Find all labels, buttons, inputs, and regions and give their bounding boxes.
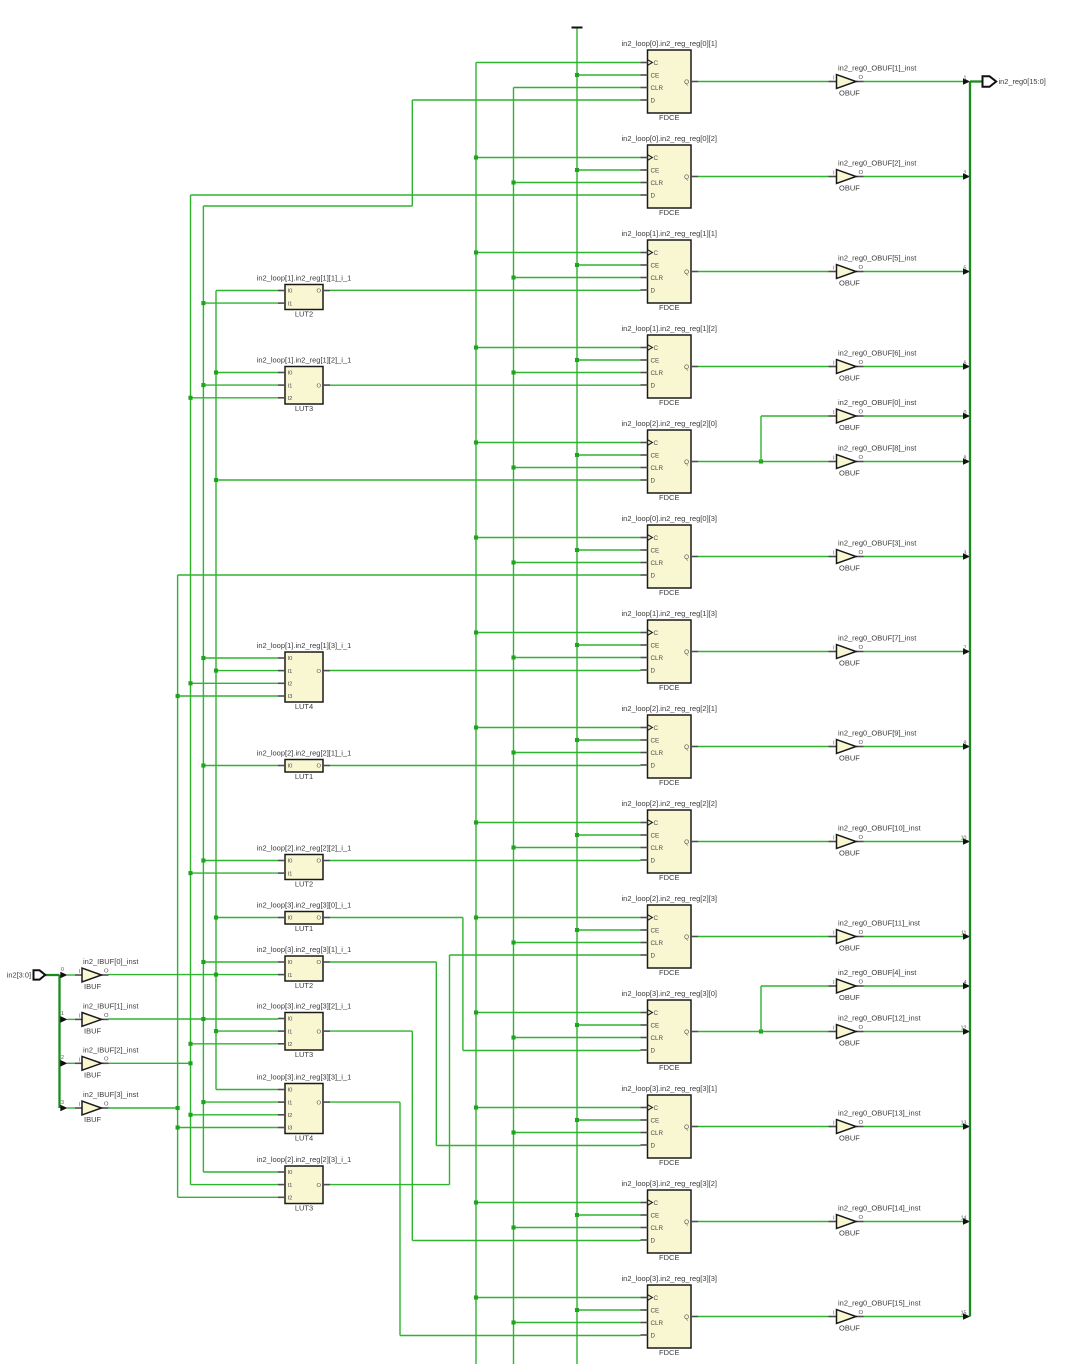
svg-text:D: D (651, 1332, 656, 1339)
svg-text:C: C (654, 630, 659, 637)
svg-text:FDCE: FDCE (659, 588, 679, 597)
wire bus tap to IBUF[1] input (67, 1018, 75, 1020)
wire LUT[3][1] O horizontal (330, 961, 436, 963)
svg-text:Q: Q (684, 1314, 689, 1321)
svg-text:D: D (651, 1142, 656, 1149)
junction in2_IBUF[1] source (201, 1017, 205, 1021)
svg-text:D: D (651, 382, 656, 389)
flip-flop U13 in2_loop[3].in2_reg_reg[3][2] (FDCE) (622, 1179, 718, 1262)
svg-text:I1: I1 (288, 1100, 293, 1106)
svg-text:LUT4: LUT4 (295, 1134, 313, 1143)
wire C tap to FDCE row 11 (476, 1012, 641, 1014)
wire in2_IBUF[1] to LUT[1][2] I1 (203, 384, 278, 386)
svg-text:I: I (79, 1014, 80, 1020)
svg-text:O: O (316, 859, 321, 865)
junction CLR tap 11 (511, 1035, 515, 1039)
svg-text:I1: I1 (288, 1183, 293, 1189)
svg-text:in2_IBUF[2]_inst: in2_IBUF[2]_inst (83, 1046, 139, 1055)
junction CE tap 14 (575, 1308, 579, 1312)
wire Q fork vertical to OBUF[4] (760, 986, 762, 1032)
junction CLR tap 5 (511, 465, 515, 469)
wire LUT[2][2] O to FDCE[2][2] D (330, 860, 641, 862)
svg-text:CE: CE (651, 72, 660, 79)
svg-text:Q: Q (684, 79, 689, 86)
svg-text:O: O (316, 1183, 321, 1189)
svg-text:IBUF: IBUF (84, 1115, 102, 1124)
wire C tap to FDCE row 4 (476, 347, 641, 349)
svg-text:in2_reg0_OBUF[6]_inst: in2_reg0_OBUF[6]_inst (838, 349, 917, 358)
wire in2_IBUF[2] to LUT[1][2] I2 (191, 397, 279, 399)
svg-text:in2_loop[0].in2_reg_reg[0][2]: in2_loop[0].in2_reg_reg[0][2] (622, 134, 718, 143)
svg-text:in2_loop[2].in2_reg_reg[2][0]: in2_loop[2].in2_reg_reg[2][0] (622, 419, 718, 428)
svg-text:LUT1: LUT1 (295, 772, 313, 781)
svg-text:in2_loop[3].in2_reg_reg[3][2]: in2_loop[3].in2_reg_reg[3][2] (622, 1179, 718, 1188)
svg-text:O: O (316, 669, 321, 675)
svg-text:FDCE: FDCE (659, 1253, 679, 1262)
wire CLR tap to FDCE row 8 (514, 752, 641, 754)
svg-text:C: C (654, 915, 659, 922)
svg-text:13: 13 (961, 1121, 967, 1127)
wire in2_IBUF[1] to LUT[2][3] I0 (203, 1171, 278, 1173)
svg-text:D: D (651, 952, 656, 959)
buffer in2_reg0_OBUF[9]_inst (OBUF) (829, 729, 918, 763)
svg-text:C: C (654, 1010, 659, 1017)
junction CE tap 11 (575, 1023, 579, 1027)
svg-text:I: I (833, 171, 834, 177)
junction in2_IBUF[0] at LUT[3][0] I0 (214, 915, 218, 919)
wire in2_IBUF[1] to LUT[3][1] I0 (203, 961, 278, 963)
buffer in2_reg0_OBUF[15]_inst (OBUF) (829, 1299, 922, 1333)
svg-text:I: I (833, 76, 834, 82)
svg-text:I0: I0 (288, 656, 293, 662)
wire in2_IBUF[2] from IBUF output (109, 1062, 191, 1064)
svg-text:OBUF: OBUF (839, 184, 860, 193)
LUT U22 in2_loop[1].in2_reg[1][3]_i_1 (LUT4) (257, 641, 352, 711)
svg-text:4: 4 (964, 980, 967, 986)
svg-text:D: D (651, 97, 656, 104)
svg-text:in2_loop[3].in2_reg_reg[3][3]: in2_loop[3].in2_reg_reg[3][3] (622, 1274, 718, 1283)
wire CLR tap to FDCE row 3 (514, 277, 641, 279)
wire in2_IBUF[1] to LUT[2][1] I0 (203, 765, 278, 767)
svg-text:OBUF: OBUF (839, 1039, 860, 1048)
svg-text:O: O (859, 930, 864, 936)
svg-text:FDCE: FDCE (659, 303, 679, 312)
bus entry arrowhead bit 2 (963, 173, 970, 180)
svg-text:in2[3:0]: in2[3:0] (7, 971, 31, 980)
svg-text:OBUF: OBUF (839, 1324, 860, 1333)
svg-text:14: 14 (961, 1216, 967, 1222)
wire C tap to FDCE row 12 (476, 1107, 641, 1109)
junction CLR tap 8 (511, 750, 515, 754)
svg-text:I0: I0 (288, 859, 293, 865)
flip-flop U2 in2_loop[0].in2_reg_reg[0][2] (FDCE) (622, 134, 718, 217)
svg-text:I: I (833, 456, 834, 462)
wire input bus in2[3:0] vertical (58, 975, 60, 1108)
svg-text:CE: CE (651, 167, 660, 174)
wire CE tap to FDCE row 14 (577, 1309, 641, 1311)
svg-text:O: O (859, 170, 864, 176)
buffer in2_reg0_OBUF[3]_inst (OBUF) (829, 539, 918, 573)
wire CLR tap to FDCE row 10 (514, 942, 641, 944)
wire OBUF[6] output to bus (864, 366, 965, 368)
flip-flop U12 in2_loop[3].in2_reg_reg[3][1] (FDCE) (622, 1084, 718, 1167)
svg-text:D: D (651, 477, 656, 484)
LUT U25 in2_loop[3].in2_reg[3][0]_i_1 (LUT1) (257, 900, 352, 933)
wire CE tap to FDCE row 7 (577, 644, 641, 646)
svg-text:I: I (833, 361, 834, 367)
svg-text:in2_loop[3].in2_reg[3][2]_i_1: in2_loop[3].in2_reg[3][2]_i_1 (257, 1001, 352, 1010)
svg-text:CLR: CLR (651, 180, 664, 187)
svg-text:FDCE: FDCE (659, 968, 679, 977)
svg-text:LUT3: LUT3 (295, 1050, 313, 1059)
wire FDCE row 3 Q to OBUF input (698, 271, 829, 273)
wire in2_IBUF[0] to LUT[3][2] I1 (216, 1030, 278, 1032)
flip-flop U14 in2_loop[3].in2_reg_reg[3][3] (FDCE) (622, 1274, 718, 1357)
wire CE net vertical trunk (576, 29, 578, 1364)
wire in2_IBUF[3] to LUT[1][3] I3 (178, 695, 278, 697)
wire CLR tap to FDCE row 6 (514, 562, 641, 564)
svg-text:9: 9 (964, 741, 967, 747)
wire FDCE row 7 Q to OBUF input (698, 651, 829, 653)
LUT U29 in2_loop[2].in2_reg[2][3]_i_1 (LUT3) (257, 1155, 352, 1213)
svg-text:CLR: CLR (651, 1130, 664, 1137)
junction in2_IBUF[1] at LUT[1][1] I1 (201, 301, 205, 305)
svg-text:FDCE: FDCE (659, 398, 679, 407)
junction C tap 11 (474, 1010, 478, 1014)
wire C tap to FDCE row 5 (476, 442, 641, 444)
wire LUT[2][3] net vertical (449, 955, 451, 1185)
svg-text:LUT2: LUT2 (295, 310, 313, 319)
svg-text:C: C (654, 1200, 659, 1207)
svg-text:in2_loop[3].in2_reg[3][0]_i_1: in2_loop[3].in2_reg[3][0]_i_1 (257, 900, 352, 909)
bus entry arrowhead bit 15 (963, 1313, 970, 1320)
svg-text:OBUF: OBUF (839, 1134, 860, 1143)
svg-text:I0: I0 (288, 371, 293, 377)
wire clock net C vertical trunk (475, 63, 477, 1364)
svg-text:O: O (316, 960, 321, 966)
LUT U20 in2_loop[1].in2_reg[1][1]_i_1 (LUT2) (257, 273, 352, 318)
wire C tap to FDCE row 14 (476, 1297, 641, 1299)
wire CLR net vertical trunk (513, 88, 515, 1364)
bus entry arrowhead bit 4 (963, 983, 970, 990)
svg-text:CE: CE (651, 1307, 660, 1314)
junction CLR tap 12 (511, 1130, 515, 1134)
bus entry arrowhead bit 11 (963, 933, 970, 940)
wire CE tap to FDCE row 11 (577, 1024, 641, 1026)
svg-text:CLR: CLR (651, 275, 664, 282)
junction CLR tap 6 (511, 560, 515, 564)
svg-text:I: I (833, 1311, 834, 1317)
svg-text:in2_reg0_OBUF[4]_inst: in2_reg0_OBUF[4]_inst (838, 968, 917, 977)
junction in2_IBUF[2] at LUT[3][3] I2 (188, 1113, 192, 1117)
buffer in2_reg0_OBUF[0]_inst (OBUF) (829, 398, 918, 432)
wire in2_IBUF[3] vertical trunk (177, 575, 179, 1197)
svg-text:D: D (651, 1237, 656, 1244)
svg-text:I: I (833, 931, 834, 937)
wire FDCE row 13 Q to OBUF input (698, 1221, 829, 1223)
wire LUT[3][0] net vertical (462, 918, 464, 1051)
svg-text:I: I (833, 741, 834, 747)
wire LUT[3][2] O horizontal (330, 1030, 412, 1032)
wire FDCE row 11 Q to OBUF input (698, 1031, 829, 1033)
junction CE tap 6 (575, 548, 579, 552)
svg-text:I: I (833, 1121, 834, 1127)
junction CLR tap 10 (511, 940, 515, 944)
svg-text:OBUF: OBUF (839, 423, 860, 432)
wire OBUF[3] output to bus (864, 556, 965, 558)
svg-text:CLR: CLR (651, 750, 664, 757)
bus entry arrowhead bit 14 (963, 1218, 970, 1225)
svg-text:O: O (859, 409, 864, 415)
svg-text:OBUF: OBUF (839, 754, 860, 763)
wire in2_IBUF[1] to LUT[1][3] I0 (203, 657, 278, 659)
wire Q fork to OBUF[4] input (761, 985, 829, 987)
svg-text:in2_loop[1].in2_reg_reg[1][3]: in2_loop[1].in2_reg_reg[1][3] (622, 609, 718, 618)
bus exit arrowhead bit 1 (60, 1016, 67, 1023)
svg-text:10: 10 (961, 836, 967, 842)
svg-text:O: O (859, 1215, 864, 1221)
wire in2_IBUF[2] to LUT[2][3] I1 (191, 1184, 279, 1186)
junction in2_IBUF[2] at LUT[2][2] I1 (188, 871, 192, 875)
svg-text:I1: I1 (288, 1029, 293, 1035)
flip-flop U9 in2_loop[2].in2_reg_reg[2][2] (FDCE) (622, 799, 718, 882)
wire CLR tap to FDCE row 7 (514, 657, 641, 659)
svg-text:LUT3: LUT3 (295, 1204, 313, 1213)
wire bus tap to IBUF[3] input (67, 1107, 75, 1109)
svg-text:3: 3 (61, 1100, 64, 1106)
svg-text:CLR: CLR (651, 370, 664, 377)
svg-text:Q: Q (684, 174, 689, 181)
svg-text:I: I (833, 551, 834, 557)
junction CE tap 5 (575, 453, 579, 457)
wire CLR tap to FDCE row 5 (514, 467, 641, 469)
svg-text:C: C (654, 820, 659, 827)
svg-text:7: 7 (964, 646, 967, 652)
wire OBUF[4] output to bus (864, 985, 965, 987)
wire OBUF[10] output to bus (864, 841, 965, 843)
svg-text:CE: CE (651, 737, 660, 744)
svg-text:CE: CE (651, 357, 660, 364)
wire OBUF[5] output to bus (864, 271, 965, 273)
bus entry arrowhead bit 5 (963, 268, 970, 275)
wire to FDCE[3][3] D (400, 1335, 641, 1337)
svg-text:in2_loop[2].in2_reg[2][1]_i_1: in2_loop[2].in2_reg[2][1]_i_1 (257, 748, 352, 757)
LUT U21 in2_loop[1].in2_reg[1][2]_i_1 (LUT3) (257, 355, 352, 413)
junction C tap 9 (474, 820, 478, 824)
svg-text:O: O (859, 645, 864, 651)
svg-text:O: O (859, 740, 864, 746)
svg-text:in2_reg0_OBUF[13]_inst: in2_reg0_OBUF[13]_inst (838, 1109, 921, 1118)
svg-text:O: O (104, 1013, 109, 1019)
wire bus tap to IBUF[2] input (67, 1062, 75, 1064)
flip-flop U3 in2_loop[1].in2_reg_reg[1][1] (FDCE) (622, 229, 718, 312)
svg-text:O: O (316, 383, 321, 389)
wire FDCE row 12 Q to OBUF input (698, 1126, 829, 1128)
svg-text:8: 8 (964, 456, 967, 462)
LUT U28 in2_loop[3].in2_reg[3][3]_i_1 (LUT4) (257, 1072, 352, 1142)
wire in2_IBUF[2] to LUT[2][2] I1 (191, 872, 279, 874)
buffer in2_reg0_OBUF[7]_inst (OBUF) (829, 634, 918, 668)
svg-text:FDCE: FDCE (659, 1158, 679, 1167)
svg-text:I: I (833, 410, 834, 416)
svg-text:D: D (651, 762, 656, 769)
wire CLR tap to FDCE row 13 (514, 1227, 641, 1229)
svg-text:LUT1: LUT1 (295, 924, 313, 933)
svg-text:O: O (859, 360, 864, 366)
svg-text:I2: I2 (288, 1113, 293, 1119)
wire in2_IBUF[1] to LUT[3][3] I1 (203, 1101, 278, 1103)
junction CLR tap 7 (511, 655, 515, 659)
wire to FDCE[3][1] D (436, 1145, 640, 1147)
svg-text:D: D (651, 857, 656, 864)
svg-text:O: O (859, 1310, 864, 1316)
svg-text:CLR: CLR (651, 845, 664, 852)
svg-text:Q: Q (684, 364, 689, 371)
bus exit arrowhead bit 3 (60, 1105, 67, 1112)
svg-text:in2_reg0_OBUF[5]_inst: in2_reg0_OBUF[5]_inst (838, 254, 917, 263)
wire in2_IBUF[1] jog vertical (411, 100, 413, 206)
junction in2_IBUF[2] at LUT[3][2] I2 (188, 1042, 192, 1046)
CE net off-page stub cap (572, 27, 583, 29)
wire in2_IBUF[1] to LUT[2][2] I0 (203, 860, 278, 862)
junction CE tap 12 (575, 1118, 579, 1122)
wire LUT[3][0] O horizontal (330, 917, 463, 919)
svg-text:in2_loop[2].in2_reg[2][3]_i_1: in2_loop[2].in2_reg[2][3]_i_1 (257, 1155, 352, 1164)
svg-text:I2: I2 (288, 682, 293, 688)
junction C tap 12 (474, 1105, 478, 1109)
junction in2_IBUF[0] at LUT[1][2] I0 (214, 370, 218, 374)
svg-text:Q: Q (684, 269, 689, 276)
svg-text:CLR: CLR (651, 1320, 664, 1327)
buffer in2_IBUF[3]_inst (IBUF) (75, 1090, 139, 1124)
svg-text:C: C (654, 1105, 659, 1112)
wire OBUF[9] output to bus (864, 746, 965, 748)
svg-text:I0: I0 (288, 764, 293, 770)
junction C tap 3 (474, 250, 478, 254)
wire OBUF[15] output to bus (864, 1316, 965, 1318)
svg-text:1: 1 (61, 1011, 64, 1017)
wire bus tap to IBUF[0] input (67, 974, 75, 976)
svg-text:OBUF: OBUF (839, 849, 860, 858)
wire FDCE row 9 Q to OBUF input (698, 841, 829, 843)
svg-text:Q: Q (684, 744, 689, 751)
junction CLR tap 3 (511, 275, 515, 279)
flip-flop U11 in2_loop[3].in2_reg_reg[3][0] (FDCE) (622, 989, 718, 1072)
svg-text:D: D (651, 667, 656, 674)
wire FDCE row 1 Q to OBUF input (698, 81, 829, 83)
wire CE tap to FDCE row 2 (577, 169, 641, 171)
buffer in2_reg0_OBUF[8]_inst (OBUF) (829, 444, 918, 478)
svg-text:O: O (859, 455, 864, 461)
junction Q fork of FDCE[3][0] (759, 1029, 763, 1033)
wire Q fork to OBUF[0] input (761, 415, 829, 417)
junction CE tap 2 (575, 168, 579, 172)
svg-text:FDCE: FDCE (659, 1063, 679, 1072)
junction CE tap 1 (575, 73, 579, 77)
wire C tap to FDCE row 6 (476, 537, 641, 539)
svg-text:O: O (859, 835, 864, 841)
svg-text:CE: CE (651, 927, 660, 934)
wire FDCE row 10 Q to OBUF input (698, 936, 829, 938)
wire in2_IBUF[1] to FDCE[0][1] D (412, 99, 640, 101)
bus entry arrowhead bit 9 (963, 743, 970, 750)
svg-text:C: C (654, 725, 659, 732)
junction C tap 6 (474, 535, 478, 539)
buffer in2_IBUF[1]_inst (IBUF) (75, 1002, 139, 1036)
junction CE tap 13 (575, 1213, 579, 1217)
wire OBUF[13] output to bus (864, 1126, 965, 1128)
svg-text:C: C (654, 155, 659, 162)
wire in2_IBUF[2] to LUT[3][2] I2 (191, 1043, 279, 1045)
bus entry arrowhead bit 3 (963, 553, 970, 560)
svg-text:O: O (859, 550, 864, 556)
svg-text:in2_loop[3].in2_reg_reg[3][0]: in2_loop[3].in2_reg_reg[3][0] (622, 989, 718, 998)
svg-text:OBUF: OBUF (839, 374, 860, 383)
svg-text:OBUF: OBUF (839, 89, 860, 98)
wire CE tap to FDCE row 4 (577, 359, 641, 361)
svg-text:in2_reg0_OBUF[7]_inst: in2_reg0_OBUF[7]_inst (838, 634, 917, 643)
svg-text:in2_loop[1].in2_reg_reg[1][2]: in2_loop[1].in2_reg_reg[1][2] (622, 324, 718, 333)
wire CE tap to FDCE row 10 (577, 929, 641, 931)
svg-text:0: 0 (964, 410, 967, 416)
wire CE tap to FDCE row 1 (577, 74, 641, 76)
svg-text:FDCE: FDCE (659, 208, 679, 217)
svg-text:FDCE: FDCE (659, 873, 679, 882)
junction C tap 2 (474, 155, 478, 159)
svg-text:IBUF: IBUF (84, 1071, 102, 1080)
wire FDCE row 4 Q to OBUF input (698, 366, 829, 368)
junction in2_IBUF[1] at LUT[2][1] I0 (201, 763, 205, 767)
wire in2_IBUF[0] from IBUF output to LUT[3][1] I1 (109, 974, 279, 976)
wire FDCE row 8 Q to OBUF input (698, 746, 829, 748)
wire CE tap to FDCE row 13 (577, 1214, 641, 1216)
svg-text:I2: I2 (288, 1042, 293, 1048)
wire CLR tap to FDCE row 14 (514, 1322, 641, 1324)
svg-text:2: 2 (964, 171, 967, 177)
svg-text:Q: Q (684, 649, 689, 656)
buffer in2_reg0_OBUF[14]_inst (OBUF) (829, 1204, 922, 1238)
svg-text:OBUF: OBUF (839, 944, 860, 953)
svg-text:in2_loop[2].in2_reg_reg[2][2]: in2_loop[2].in2_reg_reg[2][2] (622, 799, 718, 808)
wire FDCE row 6 Q to OBUF input (698, 556, 829, 558)
wire C tap to FDCE row 2 (476, 157, 641, 159)
wire CLR tap to FDCE row 9 (514, 847, 641, 849)
svg-text:I0: I0 (288, 1088, 293, 1094)
wire CE tap to FDCE row 9 (577, 834, 641, 836)
svg-text:I: I (833, 1216, 834, 1222)
svg-text:CE: CE (651, 1212, 660, 1219)
junction C tap 14 (474, 1295, 478, 1299)
junction in2_IBUF[1] at LUT[3][3] I1 (201, 1100, 205, 1104)
wire CE tap to FDCE row 6 (577, 549, 641, 551)
svg-text:in2_reg0_OBUF[0]_inst: in2_reg0_OBUF[0]_inst (838, 398, 917, 407)
svg-text:C: C (654, 440, 659, 447)
LUT U23 in2_loop[2].in2_reg[2][1]_i_1 (LUT1) (257, 748, 352, 781)
wire CE tap to FDCE row 12 (577, 1119, 641, 1121)
junction in2_IBUF[2] at LUT[1][3] I2 (188, 681, 192, 685)
svg-text:I: I (833, 980, 834, 986)
wire in2_IBUF[2] vertical trunk (190, 195, 192, 1185)
wire C tap to FDCE row 3 (476, 252, 641, 254)
wire OBUF[12] output to bus (864, 1031, 965, 1033)
junction in2_IBUF[3] source (176, 1106, 180, 1110)
junction Q fork of FDCE[2][0] (759, 459, 763, 463)
junction in2_IBUF[1] at LUT[2][2] I0 (201, 858, 205, 862)
svg-text:O: O (316, 289, 321, 295)
wire LUT[3][1] net vertical (435, 962, 437, 1146)
flip-flop U1 in2_loop[0].in2_reg_reg[0][1] (FDCE) (622, 39, 718, 122)
svg-text:OBUF: OBUF (839, 993, 860, 1002)
